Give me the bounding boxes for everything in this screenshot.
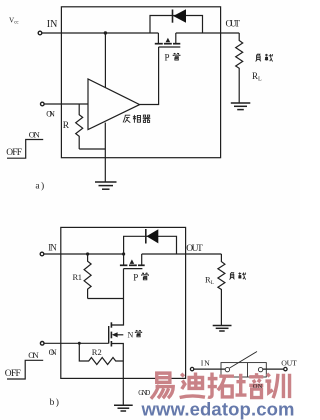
wire IN to P-FET source (a) — [42, 32, 158, 34]
load resistor RL (b) — [218, 254, 225, 326]
N-FET gate bar (b) — [108, 326, 110, 344]
body diode branch wires (b) — [124, 236, 177, 254]
diode D2 triangle (b) — [147, 229, 159, 243]
N-FET bulk tail (b) — [118, 334, 124, 336]
inverter label 反相器 (a) — [123, 115, 150, 123]
junction dot diode/source (b) — [122, 252, 125, 255]
ground symbol (a) load — [231, 103, 251, 110]
ON terminal (a) — [41, 102, 45, 106]
P-FET gate line (a) — [159, 46, 181, 48]
IN terminal (b) — [40, 252, 44, 256]
svg-text:OFF: OFF — [6, 148, 22, 158]
switch box (b) — [221, 352, 266, 378]
switch IN terminal (b) — [190, 367, 193, 370]
ON/OFF step waveform (a) — [7, 140, 43, 159]
P-FET left leg (b) — [123, 254, 125, 265]
P-FET Q1 contact bars (a) — [155, 44, 181, 47]
wire R bottom to ground line (a) — [79, 148, 105, 150]
ground symbol (b) main GND — [114, 405, 133, 411]
resistor R (a) — [76, 104, 83, 149]
svg-text:GND: GND — [138, 390, 150, 397]
svg-text:OUT: OUT — [186, 244, 203, 254]
wire junction A to inverter supply pin — [104, 33, 106, 88]
wire P-FET drain to OUT and load (b) — [142, 253, 222, 255]
svg-text:R2: R2 — [92, 347, 102, 357]
resistor R1 (b) — [84, 254, 91, 299]
wire ON input to inverter (a) — [44, 103, 88, 105]
diode D1 triangle (a) — [173, 9, 186, 22]
junction dot node A (a) — [104, 31, 107, 34]
P-FET bulk arrow (a) — [166, 38, 171, 43]
svg-text:P: P — [133, 273, 138, 283]
switch lever — [230, 352, 257, 369]
ground line (a) — [104, 123, 106, 182]
wire R1 bottom to gate line (b) — [88, 298, 124, 300]
load label 负载 (a) — [256, 54, 273, 62]
IN terminal (a) — [38, 31, 42, 35]
wire P-FET drain to OUT (a) — [176, 32, 239, 34]
svg-text:RL: RL — [252, 71, 262, 83]
load label 负载 (b) — [229, 272, 245, 279]
svg-text:ON: ON — [49, 348, 57, 357]
P-FET Q1 legs (a) — [157, 33, 159, 43]
ON terminal (b) — [40, 342, 44, 346]
svg-text:a): a) — [35, 181, 45, 192]
P-FET gate line (b) — [124, 268, 143, 270]
svg-text:www.edatop.com: www.edatop.com — [141, 399, 295, 420]
svg-text:ON: ON — [46, 109, 55, 118]
svg-text:P: P — [165, 53, 170, 63]
ground symbol (a) inverter — [95, 182, 117, 189]
body diode branch wires (a) — [150, 16, 203, 34]
N-FET source net down to GND (b) — [111, 344, 123, 406]
diode D1 cathode bar (a) — [172, 10, 174, 23]
svg-text:R: R — [63, 121, 70, 131]
wire switch IN terminal to box (b) — [194, 368, 225, 370]
N-FET bulk arrow (b) — [112, 332, 118, 337]
wire ON to N-FET gate (b) — [44, 342, 109, 344]
svg-text:IN: IN — [201, 358, 210, 367]
IC boundary box (a) — [61, 7, 220, 158]
svg-text:b): b) — [50, 397, 61, 408]
svg-text:OFF: OFF — [5, 369, 21, 379]
ground symbol (b) load — [213, 326, 232, 332]
P-FET gate drop to N-FET drain (b) — [111, 269, 123, 325]
svg-text:N: N — [128, 331, 134, 340]
P-FET bulk arrow (b) — [130, 259, 135, 264]
switch OUT terminal (b) — [284, 367, 287, 370]
svg-text:ON: ON — [253, 383, 263, 390]
wire switch to OUT terminal (b) — [263, 368, 284, 370]
load resistor RL (a) — [236, 33, 243, 103]
resistor R2 (b) — [79, 343, 123, 364]
N-FET drain lead (b) — [111, 324, 123, 326]
IC boundary box (b) — [61, 227, 186, 378]
op-amp inverter U1 triangle — [88, 79, 140, 130]
svg-text:OUT: OUT — [281, 358, 297, 367]
svg-text:R1: R1 — [73, 272, 83, 282]
switch left contact — [225, 367, 229, 371]
svg-text:RL: RL — [205, 275, 215, 287]
junction dot R1 top (b) — [86, 252, 89, 255]
ON/OFF step waveform (b) — [7, 360, 43, 379]
wire inverter output to gate (a) — [140, 47, 159, 105]
switch right contact — [258, 367, 262, 371]
svg-text:Vcc: Vcc — [9, 17, 19, 26]
watermark 易迪拓培训 red — [151, 373, 290, 399]
junction dot R2 top (b) — [78, 342, 81, 345]
svg-text:IN: IN — [48, 243, 57, 253]
diode D2 cathode bar (b) — [145, 229, 147, 244]
wire IN to P-FET source (b) — [44, 253, 124, 255]
P-FET right leg (b) — [141, 254, 143, 265]
P-FET contact bars (b) — [120, 265, 145, 268]
svg-text:IN: IN — [47, 19, 58, 30]
svg-text:ON: ON — [29, 129, 40, 139]
svg-text:OUT: OUT — [226, 20, 241, 30]
N-FET channel bar segments (b) — [110, 322, 112, 346]
svg-text:ON: ON — [28, 350, 39, 360]
